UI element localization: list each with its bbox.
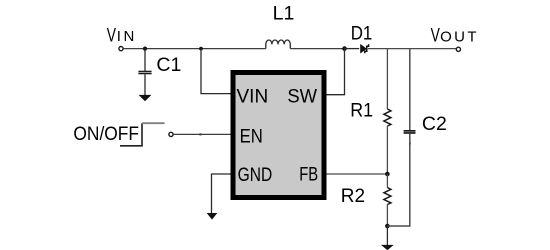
node R2/C2 ground junction — [385, 224, 390, 229]
ground below GND pin — [207, 213, 218, 220]
wire C2 top (rail down to C2) — [409, 49, 411, 131]
svg-text:L1: L1 — [273, 2, 295, 24]
wire R1 bottom to FB node — [386, 126, 388, 174]
wire VIN pin (drop from rail into IC) — [201, 49, 231, 94]
svg-text:OUT: OUT — [440, 29, 479, 46]
IC U1 body — [233, 73, 324, 198]
wire top rail middle (L1 to SW node) — [290, 48, 344, 50]
svg-text:IN: IN — [117, 28, 137, 45]
node C2 lead speck — [409, 143, 411, 145]
node SW junction — [342, 46, 347, 51]
wire C1 branch upper — [144, 49, 146, 71]
terminal EN (open circle) — [169, 132, 173, 136]
terminal VIN (open circle) — [119, 47, 123, 51]
wire SW pin (from IC up to rail) — [327, 49, 345, 95]
svg-text:EN: EN — [240, 125, 263, 146]
wire top rail right (D1 to VOUT) — [368, 48, 456, 50]
wire ground stem — [386, 226, 388, 245]
ground below C1 — [139, 95, 152, 101]
node VIN-pin junction — [199, 47, 203, 51]
svg-text:V: V — [107, 24, 117, 46]
capacitor C1 — [138, 71, 151, 75]
svg-text:C2: C2 — [422, 113, 447, 135]
wire C1 branch lower — [144, 74, 146, 95]
svg-text:C1: C1 — [156, 54, 181, 76]
wire C2 bottom to ground node — [387, 134, 409, 227]
svg-text:SW: SW — [287, 85, 317, 106]
resistor R1 — [384, 109, 391, 126]
terminal VOUT (open circle) — [456, 47, 460, 51]
svg-text:D1: D1 — [351, 22, 373, 43]
wire FB node to R2 — [386, 174, 388, 188]
pulse-edge symbol (rising edge at EN) — [120, 123, 165, 146]
svg-text:R2: R2 — [341, 186, 365, 207]
wire top rail left (VIN to L1) — [123, 48, 265, 50]
wire GND pin (out of IC to ground) — [212, 174, 231, 213]
wire R2 bottom to ground node — [386, 205, 388, 227]
resistor R2 — [384, 188, 391, 205]
svg-text:R1: R1 — [350, 99, 373, 121]
label VIN — [107, 24, 137, 46]
wire EN — [173, 133, 230, 135]
node EN wire speck — [199, 133, 201, 135]
svg-text:V: V — [431, 25, 441, 47]
node FB junction — [385, 172, 390, 177]
svg-text:FB: FB — [299, 164, 318, 185]
capacitor C2 — [404, 130, 416, 134]
inductor L1 — [266, 40, 291, 49]
svg-text:GND: GND — [238, 164, 273, 186]
ground below R2 — [381, 245, 394, 250]
svg-text:ON/OFF: ON/OFF — [73, 124, 139, 145]
wire anode segment — [345, 48, 360, 50]
wire R1 top (rail down to R1) — [386, 49, 388, 109]
label VOUT — [431, 25, 479, 47]
svg-text:VIN: VIN — [237, 87, 269, 108]
diode D1 (schottky) — [361, 44, 369, 53]
node C1 junction — [143, 47, 147, 51]
wire FB pin — [327, 173, 388, 175]
